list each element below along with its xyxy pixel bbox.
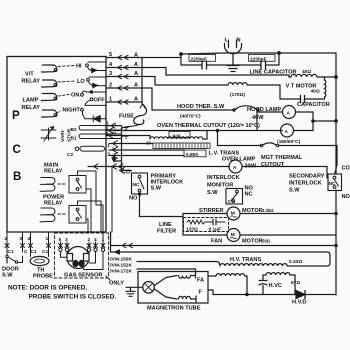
- svg-text:H.V.D: H.V.D: [292, 300, 306, 306]
- svg-text:S.W: S.W: [2, 273, 13, 279]
- svg-text:A: A: [134, 62, 138, 68]
- svg-text:V/T: V/T: [25, 72, 34, 78]
- svg-text:920: 920: [173, 133, 181, 139]
- svg-text:HOOD THER. S.W: HOOD THER. S.W: [177, 104, 225, 110]
- svg-text:LO: LO: [77, 79, 85, 85]
- svg-text:JVM-152K: JVM-152K: [109, 263, 132, 269]
- svg-text:CAPACITOR: CAPACITOR: [297, 102, 330, 108]
- svg-text:C: C: [24, 249, 28, 255]
- svg-text:(40/70°C): (40/70°C): [180, 114, 201, 120]
- svg-text:1: 1: [102, 237, 105, 243]
- svg-text:40W: 40W: [252, 115, 264, 121]
- svg-text:INTERLOCK: INTERLOCK: [207, 175, 240, 181]
- svg-text:40Ω: 40Ω: [302, 69, 311, 75]
- svg-text:1: 1: [46, 236, 49, 242]
- svg-text:H.V. TRANS: H.V. TRANS: [230, 257, 261, 263]
- svg-text:4: 4: [28, 236, 31, 242]
- svg-text:CO: CO: [228, 199, 235, 205]
- svg-text:30W: 30W: [245, 164, 257, 170]
- svg-text:0.33Ω: 0.33Ω: [289, 259, 302, 265]
- svg-text:PROBE SWITCH IS CLOSED.: PROBE SWITCH IS CLOSED.: [29, 294, 117, 301]
- svg-text:A: A: [134, 71, 138, 77]
- svg-text:PROBE: PROBE: [33, 274, 53, 280]
- svg-text:(170Ω): (170Ω): [230, 92, 245, 98]
- svg-text:RELAY: RELAY: [22, 79, 41, 85]
- svg-text:A: A: [134, 97, 138, 103]
- svg-text:A: A: [285, 129, 289, 135]
- svg-text:S.W: S.W: [289, 188, 300, 194]
- svg-text:STIRRER: STIRRER: [199, 208, 224, 214]
- svg-text:OVEN THERMAL CUTOUT (120/= 10°: OVEN THERMAL CUTOUT (120/= 10°C): [157, 123, 260, 129]
- svg-text:C1: C1: [31, 249, 37, 255]
- svg-text:LINE: LINE: [159, 222, 172, 228]
- svg-text:C1: C1: [42, 249, 48, 255]
- svg-text:3: 3: [65, 237, 68, 243]
- svg-text:B2: B2: [71, 127, 77, 133]
- svg-text:NIGHT: NIGHT: [63, 108, 81, 114]
- svg-text:LAMP: LAMP: [23, 98, 39, 104]
- svg-text:MOTOR: MOTOR: [242, 208, 263, 214]
- svg-text:GAS SENSOR: GAS SENSOR: [64, 273, 103, 279]
- svg-text:N: N: [237, 38, 241, 44]
- svg-text:CO: CO: [342, 166, 350, 172]
- svg-text:A: A: [134, 83, 138, 89]
- svg-text:RELAY: RELAY: [22, 105, 41, 111]
- svg-text:P: P: [12, 110, 20, 122]
- svg-text:OFF: OFF: [94, 98, 106, 104]
- svg-text:1: 1: [114, 131, 117, 136]
- svg-text:A: A: [233, 165, 237, 171]
- svg-text:NOTE: DOOR IS OPENED.: NOTE: DOOR IS OPENED.: [8, 285, 87, 292]
- svg-text:RELAY: RELAY: [44, 169, 63, 175]
- svg-text:50Ω: 50Ω: [262, 239, 271, 244]
- svg-text:120Ω: 120Ω: [186, 227, 198, 233]
- svg-text:5: 5: [109, 52, 112, 58]
- svg-text:C: C: [13, 144, 21, 156]
- svg-text:OVEN LAMP: OVEN LAMP: [222, 157, 256, 163]
- svg-text:3: 3: [20, 236, 23, 242]
- svg-text:MOTOR: MOTOR: [242, 239, 263, 245]
- svg-text:3.3kΩ: 3.3kΩ: [262, 208, 274, 213]
- svg-text:67Ω: 67Ω: [291, 280, 300, 286]
- svg-text:1: 1: [109, 97, 112, 103]
- svg-text:F: F: [199, 290, 203, 296]
- svg-text:INTERLOCK: INTERLOCK: [289, 181, 322, 187]
- svg-text:2200pF: 2200pF: [250, 56, 267, 62]
- svg-text:0.800: 0.800: [186, 152, 198, 158]
- svg-text:RELAY: RELAY: [44, 201, 63, 207]
- svg-text:CUTOUT: CUTOUT: [261, 162, 285, 168]
- svg-text:NO: NO: [342, 194, 350, 200]
- svg-text:40Ω: 40Ω: [311, 89, 320, 95]
- svg-text:A: A: [287, 111, 291, 117]
- svg-text:JVM-150K: JVM-150K: [109, 256, 132, 262]
- svg-text:FUSE: FUSE: [119, 114, 134, 120]
- svg-text:4: 4: [94, 237, 97, 243]
- svg-text:MAGNETRON TUBE: MAGNETRON TUBE: [147, 306, 201, 312]
- svg-text:MGT THERMAL: MGT THERMAL: [261, 155, 303, 161]
- svg-text:HOOD LAMP: HOOD LAMP: [247, 107, 281, 113]
- svg-text:S.W: S.W: [151, 186, 162, 192]
- svg-text:MONITOR: MONITOR: [207, 183, 233, 189]
- svg-text:NC: NC: [329, 181, 336, 187]
- svg-text:5: 5: [59, 237, 62, 243]
- svg-text:B1: B1: [71, 136, 77, 142]
- svg-text:FILTER: FILTER: [157, 229, 176, 235]
- svg-text:VARI-: VARI-: [60, 129, 66, 142]
- svg-text:NC: NC: [245, 192, 253, 198]
- svg-text:S.W: S.W: [207, 190, 218, 196]
- svg-text:ON: ON: [71, 93, 79, 99]
- svg-text:B: B: [13, 171, 21, 183]
- svg-text:ONLY: ONLY: [109, 280, 124, 286]
- svg-text:2: 2: [5, 236, 8, 242]
- svg-text:0.1μF: 0.1μF: [209, 227, 222, 233]
- svg-text:A: A: [134, 53, 138, 59]
- svg-text:C1: C1: [8, 249, 14, 255]
- svg-text:CO: CO: [122, 170, 131, 176]
- svg-text:2200pF: 2200pF: [191, 56, 208, 62]
- svg-text:HI: HI: [76, 64, 82, 70]
- svg-text:NO: NO: [129, 196, 138, 202]
- svg-text:NC: NC: [133, 182, 140, 188]
- svg-text:SECONDARY: SECONDARY: [289, 174, 325, 180]
- svg-text:FAN: FAN: [211, 239, 222, 245]
- svg-text:FA: FA: [197, 278, 204, 284]
- svg-text:C2: C2: [67, 152, 73, 158]
- svg-text:JVM-172K: JVM-172K: [109, 268, 132, 274]
- svg-text:2: 2: [109, 83, 112, 89]
- svg-text:3: 3: [109, 71, 112, 77]
- svg-text:(160/60°C): (160/60°C): [277, 139, 301, 145]
- svg-text:2: 2: [88, 237, 91, 243]
- svg-text:L: L: [225, 38, 229, 44]
- svg-text:H.VC: H.VC: [269, 283, 282, 289]
